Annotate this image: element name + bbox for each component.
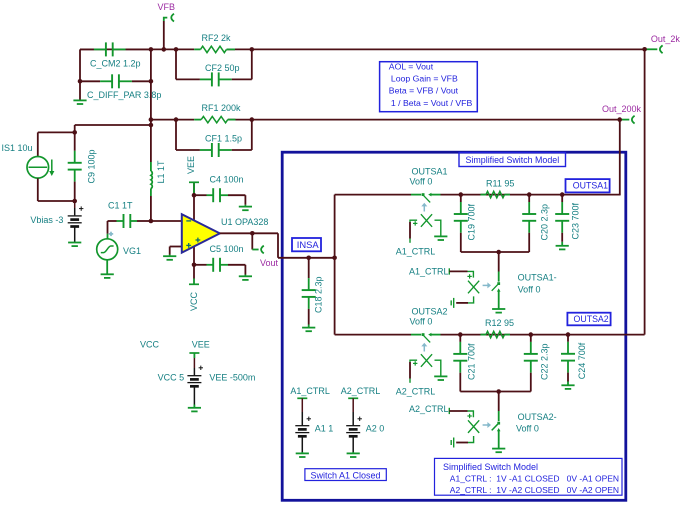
- wire RF1 feedback row y=119.6: [151, 119, 194, 121]
- resistor R12 95: [481, 334, 487, 336]
- wire op-amp output: [220, 232, 278, 234]
- switch SA1- vertical: [498, 252, 500, 272]
- junction dot source tap: [149, 123, 154, 128]
- simplified switch model enclosure box: [282, 152, 626, 500]
- svg-text:RF2 2k: RF2 2k: [202, 33, 232, 43]
- capacitor C18 2.3p: [308, 258, 310, 278]
- node VFB connector: [163, 21, 165, 49]
- svg-text:Loop Gain = VFB: Loop Gain = VFB: [391, 74, 458, 84]
- node Vout connector: [251, 233, 253, 249]
- power rail VEE T-bar: [189, 352, 199, 354]
- battery Vbias -3: [74, 201, 76, 208]
- rail T-bar A2: [348, 397, 358, 399]
- svg-text:Voff 0: Voff 0: [516, 424, 539, 434]
- wire top feedback row y=49: [80, 48, 194, 50]
- svg-text:A1_CTRL : 1V -A1 CLOSED 0V: A1_CTRL : 1V -A1 CLOSED 0V -A1 OPEN: [450, 474, 619, 484]
- wire IS1 top to C9 top: [37, 132, 39, 156]
- wire IS1 bottom row y=201: [37, 178, 39, 201]
- junction dots row 2: [458, 332, 463, 337]
- svg-text:VCC: VCC: [140, 340, 160, 350]
- svg-text:Out_2k: Out_2k: [651, 34, 680, 44]
- svg-text:INSA: INSA: [297, 239, 320, 250]
- current source IS1 10u: [27, 157, 49, 179]
- svg-text:L1 1T: L1 1T: [156, 160, 166, 184]
- svg-text:VCC: VCC: [189, 291, 199, 311]
- svg-text:Vbias -3: Vbias -3: [30, 215, 63, 225]
- svg-text:C23 700f: C23 700f: [571, 202, 581, 239]
- wire left vertical to ground: [79, 49, 81, 99]
- junction dots top row: [149, 47, 154, 52]
- svg-text:Simplified Switch Model: Simplified Switch Model: [443, 462, 538, 472]
- svg-text:U1 OPA328: U1 OPA328: [221, 217, 268, 227]
- svg-text:A1_CTRL: A1_CTRL: [396, 247, 436, 257]
- ground after C4: [244, 205, 246, 207]
- svg-text:C9 100p: C9 100p: [87, 149, 97, 183]
- svg-text:Beta = VFB / Vout: Beta = VFB / Vout: [389, 86, 459, 96]
- switch SA2- vertical: [498, 392, 500, 412]
- capacitor C4 100n: [194, 194, 207, 196]
- annotation box AOL equations: [380, 62, 478, 112]
- svg-text:C21 700f: C21 700f: [467, 343, 477, 380]
- svg-text:A1 1: A1 1: [315, 424, 334, 434]
- voltage generator VG1: [97, 239, 118, 260]
- inductor L1 1T: [150, 162, 152, 171]
- svg-text:VEE -500m: VEE -500m: [209, 373, 255, 383]
- switch SA1- control X symbol: [468, 281, 479, 294]
- ground below A2: [352, 452, 354, 453]
- svg-text:A1_CTRL: A1_CTRL: [409, 266, 449, 276]
- svg-text:Voff 0: Voff 0: [518, 284, 541, 294]
- ground below VG1: [106, 260, 108, 275]
- resistor RF1 200k: [194, 119, 201, 121]
- ground below A1: [301, 452, 303, 453]
- junction dots row 1: [459, 192, 464, 197]
- ground below SA2-: [492, 448, 505, 450]
- wire plus input to ground: [170, 246, 182, 248]
- wire OUTSA1 riser to Out_200k: [619, 120, 621, 195]
- label box OUTSA1: [566, 179, 610, 192]
- svg-text:R12 95: R12 95: [485, 318, 514, 328]
- svg-text:C22 2.3p: C22 2.3p: [540, 343, 550, 380]
- svg-text:A2_CTRL: A2_CTRL: [409, 404, 449, 414]
- svg-text:1 / Beta = Vout / VFB: 1 / Beta = Vout / VFB: [391, 98, 473, 108]
- battery A2 0: [352, 398, 354, 412]
- ground below SA1-: [492, 308, 505, 310]
- label box INSA: [292, 238, 321, 251]
- junction dot minus node: [149, 219, 154, 224]
- ground below C_DIFF_PAR: [79, 99, 81, 102]
- ground below Vbias: [74, 242, 76, 243]
- switch SA2: [411, 334, 421, 336]
- power rail VEE stub: [193, 182, 195, 195]
- svg-text:VEE: VEE: [192, 340, 210, 350]
- svg-text:RF1 200k: RF1 200k: [202, 103, 242, 113]
- svg-text:CF2 50p: CF2 50p: [205, 63, 240, 73]
- ground below C18: [308, 325, 310, 328]
- switch SA2- control bottom to terminal: [468, 436, 474, 443]
- ground below supply battery: [193, 405, 195, 408]
- capacitor C23 700f: [561, 195, 563, 202]
- svg-text:A2_CTRL: A2_CTRL: [341, 386, 381, 396]
- capacitor C9 100p: [74, 132, 76, 150]
- svg-text:AOL = Vout: AOL = Vout: [389, 62, 434, 72]
- junction dots C_DIFF row: [78, 79, 83, 84]
- svg-text:C20 2.3p: C20 2.3p: [540, 204, 550, 241]
- svg-text:C24 700f: C24 700f: [577, 342, 587, 379]
- rail T-bar A1: [297, 397, 307, 399]
- junction dot SA2- top: [496, 389, 501, 394]
- op-amp U1 triangle: [182, 214, 220, 252]
- svg-text:VCC 5: VCC 5: [158, 373, 185, 383]
- junction dot output node: [250, 231, 255, 236]
- svg-text:C_CM2 1.2p: C_CM2 1.2p: [90, 59, 141, 69]
- svg-text:C4 100n: C4 100n: [210, 174, 244, 184]
- junction dot SA1- top: [496, 250, 501, 255]
- capacitor C_CM2 1.2p: [80, 48, 94, 50]
- svg-text:CF1 1.5p: CF1 1.5p: [205, 133, 242, 143]
- svg-text:OUTSA1-: OUTSA1-: [518, 273, 557, 283]
- capacitor CF1 1.5p loop: [175, 120, 177, 150]
- svg-text:C1 1T: C1 1T: [108, 201, 133, 211]
- junction dot VEE/C4: [192, 193, 197, 198]
- capacitor C24 700f: [567, 335, 569, 342]
- svg-text:R11 95: R11 95: [486, 179, 514, 189]
- svg-text:OUTSA1: OUTSA1: [412, 167, 448, 177]
- svg-text:Simplified Switch Model: Simplified Switch Model: [466, 155, 560, 165]
- svg-text:IS1 10u: IS1 10u: [2, 143, 33, 153]
- junction dots RF1 row: [149, 117, 154, 122]
- capacitor C22 2.3p: [530, 335, 532, 342]
- svg-text:A2_CTRL: A2_CTRL: [396, 387, 436, 397]
- annotation box switch truth table: [435, 458, 623, 495]
- capacitor C19 700f: [460, 195, 462, 202]
- node Out_2k connector: [645, 48, 658, 50]
- capacitor C1 1T: [108, 220, 117, 222]
- ground below C24: [567, 382, 569, 386]
- resistor RF2 2k: [194, 48, 200, 50]
- switch SA2- control X symbol: [468, 420, 479, 433]
- wire minus input row y=221: [137, 220, 151, 222]
- svg-text:OUTSA1: OUTSA1: [573, 180, 608, 190]
- wire switch row 1: [335, 194, 411, 196]
- svg-text:Vout: Vout: [260, 258, 279, 268]
- switch SA2- control from A2_CTRL: [448, 408, 450, 414]
- switch SA1 control X symbol: [421, 214, 432, 227]
- svg-text:Out_200k: Out_200k: [602, 104, 642, 114]
- switch SA1: [411, 194, 421, 196]
- power rail VCC stub: [193, 279, 195, 285]
- svg-text:C5 100n: C5 100n: [210, 244, 244, 254]
- resistor R11 95: [481, 194, 487, 196]
- capacitor C_DIFF_PAR 3.8p: [80, 80, 100, 82]
- wire Out_2k vertical to OUTSA2 row: [644, 49, 646, 334]
- switch SA1 control right bracket to ground: [435, 220, 441, 236]
- junction dots INSA row: [306, 255, 311, 260]
- ground after C5: [244, 275, 246, 277]
- ground below C23: [561, 242, 563, 246]
- svg-text:C18 2.3p: C18 2.3p: [314, 276, 324, 313]
- wire C21-C22 bottom row: [460, 391, 531, 393]
- svg-text:OUTSA2: OUTSA2: [412, 307, 448, 317]
- switch SA1 control left bracket to A1_CTRL: [410, 220, 417, 222]
- switch SA1- control bottom to terminal: [468, 296, 474, 303]
- wire inverting node vertical: [150, 49, 152, 162]
- switch SA1- control from A1_CTRL: [448, 268, 450, 274]
- node Out_200k connector: [620, 119, 630, 121]
- battery A1 1: [301, 398, 303, 412]
- capacitor C20 2.3p: [528, 195, 530, 202]
- ground at plus input: [169, 255, 171, 257]
- svg-text:VG1: VG1: [123, 246, 141, 256]
- junction dots IS1 net: [72, 130, 77, 135]
- label box OUTSA2: [567, 313, 610, 326]
- capacitor C5 100n: [194, 264, 207, 266]
- svg-text:VEE: VEE: [186, 156, 196, 174]
- switch SA2 control right bracket to ground: [435, 360, 441, 376]
- switch SA2 control X symbol: [421, 354, 432, 367]
- annotation box switch A1 closed: [305, 469, 386, 481]
- svg-text:OUTSA2: OUTSA2: [574, 314, 609, 324]
- svg-text:VFB: VFB: [158, 2, 176, 12]
- svg-text:Voff 0: Voff 0: [410, 317, 433, 327]
- svg-text:C19 700f: C19 700f: [467, 203, 477, 240]
- svg-text:OUTSA2-: OUTSA2-: [518, 412, 557, 422]
- svg-text:A2 0: A2 0: [366, 424, 385, 434]
- wire switch row 2: [335, 334, 411, 336]
- svg-text:A2_CTRL : 1V -A2 CLOSED 0V: A2_CTRL : 1V -A2 CLOSED 0V -A2 OPEN: [450, 485, 619, 495]
- wire INSA vertical riser: [334, 195, 336, 258]
- op-amp power pins: [193, 183, 195, 223]
- capacitor C21 700f: [459, 335, 461, 342]
- capacitor CF2 50p loop: [175, 49, 177, 79]
- switch SA2 control left bracket to A2_CTRL: [410, 360, 417, 362]
- battery VCC 5 / VEE -500m: [193, 358, 195, 368]
- wire C19-C20 bottom row: [461, 251, 529, 253]
- annotation box simplified switch model title: [459, 153, 566, 167]
- wire VG1 top: [107, 221, 109, 234]
- svg-text:Switch A1 Closed: Switch A1 Closed: [311, 471, 381, 481]
- svg-text:Voff 0: Voff 0: [410, 177, 433, 187]
- svg-text:A1_CTRL: A1_CTRL: [290, 386, 330, 396]
- junction dot VCC/C5: [192, 263, 197, 268]
